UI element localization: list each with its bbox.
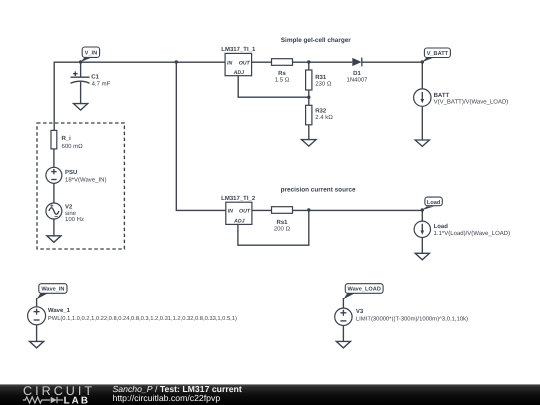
wire rail to R31 [308,62,310,70]
svg-text:Wave_LOAD: Wave_LOAD [348,287,381,293]
svg-text:100 Hz: 100 Hz [65,216,84,223]
svg-text:R_i: R_i [62,135,72,142]
junction at Rs/R31 node [307,60,310,63]
svg-text:Wave_1: Wave_1 [48,307,71,314]
wire Wave_1 to ground [36,325,38,342]
svg-text:1N4007: 1N4007 [346,76,368,83]
svg-text:18*V(Wave_IN): 18*V(Wave_IN) [65,177,106,184]
wire main top rail [54,62,225,130]
svg-text:http://circuitlab.com/c22fpvp: http://circuitlab.com/c22fpvp [113,393,221,403]
ground (Load) [415,253,429,259]
wire vertical to U2 IN [176,62,226,210]
svg-text:LIMIT(30000*((T-300m)/1000m)^3: LIMIT(30000*((T-300m)/1000m)^3,0.1,10k) [356,316,468,323]
node flag V_BATT [422,48,450,62]
current source Load [414,221,510,237]
svg-text:1.5 Ω: 1.5 Ω [275,77,290,84]
junction at Load node [421,208,424,211]
svg-text:V3: V3 [356,308,364,315]
wire node to R32 [308,97,310,105]
resistor Rs1 [272,207,293,233]
svg-text:R31: R31 [315,74,327,81]
svg-text:C1: C1 [91,74,99,81]
svg-text:R32: R32 [315,107,327,114]
wire V_BATT node to BATT source [421,62,423,89]
wire Rs to D1 anode [293,61,353,63]
ground (V2) [47,236,61,243]
svg-text:V_IN: V_IN [85,50,97,56]
op-amp regulator U2 LM317_TI_2 [221,195,256,224]
svg-text:V_BATT: V_BATT [427,51,449,57]
svg-text:1.1*V(Load)/V(Wave_LOAD): 1.1*V(Load)/V(Wave_LOAD) [434,230,510,237]
voltage source PSU [46,167,107,183]
dashed box (source model) [37,123,124,249]
ground (R32) [302,140,317,147]
svg-text:Load: Load [434,223,449,230]
svg-text:Wave_IN: Wave_IN [41,287,64,293]
wire Rs1 to Load node [293,209,423,211]
ground (BATT) [415,140,429,146]
node flag Wave_LOAD [343,284,383,300]
svg-text:ADJ: ADJ [233,70,244,76]
svg-text:Load: Load [427,199,441,206]
svg-text:PWL(0.1,1.0,0.2,1,0.22,0.8,0.2: PWL(0.1,1.0,0.2,1,0.22,0.8,0.24,0.8,0.3,… [48,315,237,322]
ground (V3) [336,341,350,348]
svg-text:OUT: OUT [239,208,251,214]
svg-text:V2: V2 [65,204,73,211]
wire OUT of U2 to Rs1 [252,209,272,211]
wire flag to V3 [342,298,344,308]
diode D1 [346,58,368,84]
current source BATT [414,89,509,106]
svg-text:2.4 kΩ: 2.4 kΩ [315,114,333,121]
wire V3 to ground [342,326,344,342]
wire R32 to ground [308,125,310,140]
logo resistor+diode glyph [23,397,63,403]
svg-text:Rs1: Rs1 [276,219,288,226]
wire flag to Wave_1 [36,298,38,307]
resistor R32 [306,105,334,125]
svg-text:IN: IN [227,60,232,66]
voltage source V2 (sine) [46,203,84,223]
svg-text:600 mΩ: 600 mΩ [62,143,84,150]
wire PSU to V2 [53,183,55,203]
capacitor C1 [71,62,111,104]
svg-text:D1: D1 [353,70,361,77]
wire U1 ADJ feedback [238,76,309,98]
svg-text:ADJ: ADJ [233,219,244,225]
junction at V_IN node [79,60,82,63]
resistor R_i [51,130,83,150]
svg-text:230 Ω: 230 Ω [315,80,332,87]
svg-text:Rs: Rs [278,70,286,77]
ground (C1) [74,104,88,111]
svg-text:200 Ω: 200 Ω [274,226,291,233]
wire Load to ground [421,238,423,254]
svg-text:LM317_TI_1: LM317_TI_1 [221,46,256,53]
voltage source Wave_1 [28,307,237,325]
wire OUT of U1 to Rs [252,61,272,63]
resistor Rs [272,59,293,84]
svg-text:LAB: LAB [64,395,90,405]
svg-text:4.7 mF: 4.7 mF [92,81,111,88]
ground (Wave_1) [30,341,44,348]
junction at ADJ/R31/R32 node [307,96,310,99]
junction at V_BATT node [421,60,424,63]
svg-text:V(V_BATT)/V(Wave_LOAD): V(V_BATT)/V(Wave_LOAD) [434,99,509,106]
svg-text:BATT: BATT [434,92,450,99]
wire BATT to ground [421,106,423,140]
wire U2 ADJ feedback [238,210,309,245]
junction at Rs1/feedback node [307,208,310,211]
svg-text:IN: IN [228,208,233,214]
svg-text:PSU: PSU [65,169,77,176]
svg-text:precision current source: precision current source [281,187,356,194]
junction at x=176 on rail [175,60,178,63]
svg-text:Simple gel-cell charger: Simple gel-cell charger [281,37,351,44]
wire R31 to node [308,90,310,97]
svg-text:OUT: OUT [239,60,251,66]
wire Load node to Load source [421,210,423,221]
resistor R31 [306,70,332,90]
op-amp regulator U1 LM317_TI_1 [221,46,256,76]
node flag V_IN [81,47,100,62]
wire R_i to PSU [53,149,55,167]
node flag Load [422,197,442,210]
svg-text:sine: sine [65,210,77,217]
node flag Wave_IN [37,284,67,300]
svg-text:LM317_TI_2: LM317_TI_2 [221,195,256,202]
voltage source V3 [335,308,468,325]
wire D1 cathode to V_BATT node [362,61,422,63]
wire V2 to ground [53,219,55,236]
